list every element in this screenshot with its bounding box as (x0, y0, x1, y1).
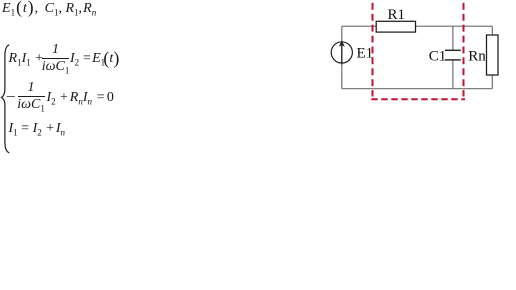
equation 1 term I2 (70, 52, 79, 68)
capacitor C1 plates (445, 50, 461, 60)
wire C1 branch lower (452, 61, 454, 89)
equation 1 main run R1I1 + (9, 52, 44, 68)
dashed feedback box right side (463, 3, 465, 97)
equation 1 rhs = E1(t) (83, 52, 119, 68)
resistor R1 body (376, 21, 415, 32)
system brace (0, 0, 16, 160)
svg-text:R1: R1 (388, 7, 406, 23)
equation 1 fraction denominator iωC1 (41, 60, 70, 76)
wire bottom rail (342, 88, 493, 90)
equation 2 minus sign (7, 91, 15, 105)
wire right branch (491, 26, 493, 88)
equation 2 fraction numerator 1 (18, 81, 45, 95)
equation 2 fraction bar (18, 96, 45, 97)
equation 1 fraction bar (42, 58, 69, 59)
wire C1 branch upper (452, 26, 454, 50)
svg-text:E1: E1 (357, 46, 374, 62)
resistor Rn body (487, 35, 499, 75)
dashed feedback box bottom side (371, 98, 465, 100)
svg-text:C1: C1 (429, 49, 447, 65)
source E1 arrow shaft (341, 44, 343, 65)
equation 2 fraction denominator iωC1 (17, 98, 46, 114)
given quantities line E1(t), C1, R1, Rn (2, 2, 96, 18)
source E1 circle (331, 42, 352, 63)
wire left branch (341, 26, 343, 88)
wire top rail (342, 25, 493, 27)
equation 2 run I2 + RnIn = 0 (47, 91, 114, 107)
svg-text:Rn: Rn (468, 49, 486, 65)
equation 3 I1 = I2 + In (9, 122, 66, 138)
equation 1 fraction numerator 1 (42, 43, 69, 57)
source E1 arrowhead (339, 40, 345, 47)
dashed feedback box left side (372, 3, 374, 97)
